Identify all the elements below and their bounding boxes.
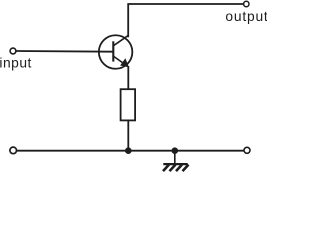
wire base lead (input to transistor base) (16, 50, 113, 53)
terminal: bottom right (244, 147, 250, 153)
terminal: output (244, 1, 249, 6)
wire top horizontal (collector to output) (128, 4, 244, 37)
collector lead (113, 35, 128, 46)
emitter arrow (120, 58, 129, 67)
wire resistor bottom to rail (127, 120, 129, 150)
emitter lead (113, 56, 127, 66)
junction dot (ground / rail) (172, 147, 179, 154)
junction dot (resistor / rail) (125, 147, 132, 154)
resistor R1 (121, 89, 136, 120)
ground (163, 151, 189, 171)
wire emitter vertical (127, 66, 129, 89)
svg-text:input: input (0, 56, 32, 71)
wire bottom rail (17, 150, 244, 152)
transistor body circle (99, 35, 133, 69)
terminal: bottom left (10, 147, 17, 154)
base bar (112, 41, 114, 61)
svg-text:output: output (225, 9, 267, 24)
terminal: input (10, 48, 16, 54)
transistor Q1 (99, 35, 133, 69)
